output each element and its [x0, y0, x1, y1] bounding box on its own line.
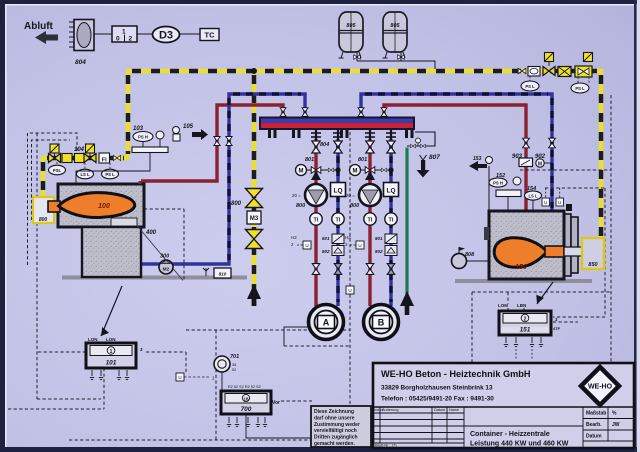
svg-text:PS H: PS H	[138, 135, 148, 140]
svg-text:801: 801	[358, 157, 367, 163]
svg-text:vervielfältigt noch: vervielfältigt noch	[314, 428, 357, 434]
svg-text:800: 800	[350, 203, 359, 209]
svg-text:PSL: PSL	[53, 168, 62, 173]
svg-text:U: U	[178, 375, 181, 380]
svg-text:18: 18	[243, 397, 249, 402]
svg-text:52: 52	[232, 368, 236, 372]
svg-text:805: 805	[390, 23, 400, 29]
svg-text:Container - Heizzentrale: Container - Heizzentrale	[470, 431, 550, 438]
svg-text:H3: H3	[345, 235, 351, 240]
svg-text:801: 801	[322, 236, 330, 241]
svg-text:0: 0	[116, 36, 120, 43]
svg-text:TI: TI	[389, 218, 394, 224]
svg-text:Telefon : 05425/9491-20 Fax: Telefon : 05425/9491-20 Fax : 9491-30	[381, 396, 494, 403]
svg-text:U: U	[358, 243, 361, 248]
svg-text:38: 38	[232, 363, 236, 367]
svg-text:LS L: LS L	[80, 172, 90, 177]
svg-text:%: %	[612, 411, 617, 417]
svg-text:4TF: 4TF	[553, 326, 561, 331]
svg-text:A: A	[323, 318, 330, 328]
svg-text:801: 801	[305, 157, 314, 163]
svg-text:101: 101	[106, 360, 117, 367]
svg-text:U: U	[305, 243, 308, 248]
svg-text:LOM: LOM	[498, 303, 508, 308]
svg-text:LBN: LBN	[517, 303, 526, 308]
svg-text:701: 701	[230, 354, 239, 360]
svg-text:LS L: LS L	[528, 194, 538, 199]
svg-text:805: 805	[346, 23, 356, 29]
svg-text:H2: H2	[291, 235, 297, 240]
svg-text:33829 Borgholzhausen Steinbr: 33829 Borgholzhausen Steinbrink 13	[381, 385, 493, 392]
svg-text:M: M	[299, 169, 304, 175]
svg-text:Vor: Vor	[272, 400, 280, 406]
svg-text:800: 800	[39, 217, 48, 223]
svg-text:TI: TI	[368, 218, 373, 224]
svg-text:gemacht werden.: gemacht werden.	[314, 441, 355, 447]
svg-text:Datum: Datum	[434, 408, 445, 412]
svg-text:M2: M2	[163, 267, 170, 272]
svg-text:1: 1	[122, 29, 126, 36]
svg-text:Diese Zeichnung: Diese Zeichnung	[314, 409, 354, 415]
svg-text:M3: M3	[250, 216, 259, 222]
svg-text:JW: JW	[612, 422, 620, 428]
svg-text:400: 400	[145, 230, 157, 236]
svg-text:U: U	[558, 200, 561, 205]
svg-text:U: U	[348, 288, 351, 293]
svg-text:Leistung 440 KW und 460 KW: Leistung 440 KW und 460 KW	[470, 441, 569, 448]
svg-text:801: 801	[375, 236, 383, 241]
svg-text:M: M	[353, 169, 358, 175]
svg-text:808: 808	[465, 252, 475, 258]
svg-text:Änderung: Änderung	[382, 408, 398, 412]
svg-text:810: 810	[219, 272, 227, 277]
svg-text:800: 800	[296, 203, 305, 209]
svg-text:TI: TI	[336, 218, 341, 224]
svg-text:Dritten zugänglich: Dritten zugänglich	[314, 435, 358, 441]
svg-text:PS L: PS L	[575, 86, 585, 91]
svg-text:PS L: PS L	[105, 172, 115, 177]
svg-text:LON: LON	[106, 337, 116, 342]
svg-text:105: 105	[183, 124, 194, 130]
svg-text:20 =: 20 =	[292, 193, 301, 198]
svg-text:PS L: PS L	[525, 84, 535, 89]
svg-text:850: 850	[588, 262, 597, 268]
svg-text:800: 800	[231, 201, 242, 207]
svg-text:300: 300	[160, 254, 169, 260]
svg-text:Maßstab: Maßstab	[586, 411, 606, 417]
svg-text:151: 151	[520, 327, 531, 334]
svg-text:R2 52 S2 R2 52 S2: R2 52 S2 R2 52 S2	[228, 385, 261, 389]
svg-text:804: 804	[320, 142, 329, 148]
svg-text:PS H: PS H	[493, 181, 503, 186]
svg-text:802: 802	[375, 249, 383, 254]
svg-text:807: 807	[429, 154, 440, 161]
svg-text:TI: TI	[314, 218, 319, 224]
svg-text:2: 2	[129, 36, 133, 43]
svg-text:U: U	[544, 200, 547, 205]
svg-text:M: M	[538, 162, 542, 168]
svg-text:100: 100	[98, 203, 110, 210]
svg-text:20 =: 20 =	[346, 193, 355, 198]
svg-text:D3: D3	[159, 30, 173, 42]
svg-text:104: 104	[74, 147, 85, 153]
svg-text:Blatt-Nr.: (7): Blatt-Nr.: (7)	[375, 443, 397, 448]
svg-text:2: 2	[524, 317, 527, 323]
svg-text:Bearb.: Bearb.	[586, 422, 602, 428]
svg-text:Zustimmung weder: Zustimmung weder	[314, 422, 360, 428]
svg-text:Name: Name	[449, 408, 459, 412]
svg-text:1: 1	[110, 349, 113, 355]
svg-text:B: B	[378, 318, 385, 328]
svg-text:LON: LON	[88, 337, 98, 342]
svg-text:153: 153	[473, 156, 482, 162]
svg-text:802: 802	[322, 249, 330, 254]
svg-text:WE-HO: WE-HO	[588, 384, 613, 391]
svg-text:LQ: LQ	[386, 188, 395, 195]
svg-text:700: 700	[241, 406, 252, 413]
svg-text:Datum: Datum	[586, 434, 602, 440]
svg-text:TC: TC	[205, 31, 216, 40]
svg-text:804: 804	[75, 59, 86, 66]
svg-text:Abluft: Abluft	[24, 21, 54, 32]
svg-text:LQ: LQ	[333, 188, 342, 195]
svg-text:darf ohne unsere: darf ohne unsere	[314, 415, 355, 421]
svg-text:FI: FI	[102, 158, 107, 164]
svg-text:WE-HO Beton - Heiztechnik Gmb: WE-HO Beton - Heiztechnik GmbH	[381, 369, 531, 379]
svg-text:150: 150	[515, 264, 527, 271]
